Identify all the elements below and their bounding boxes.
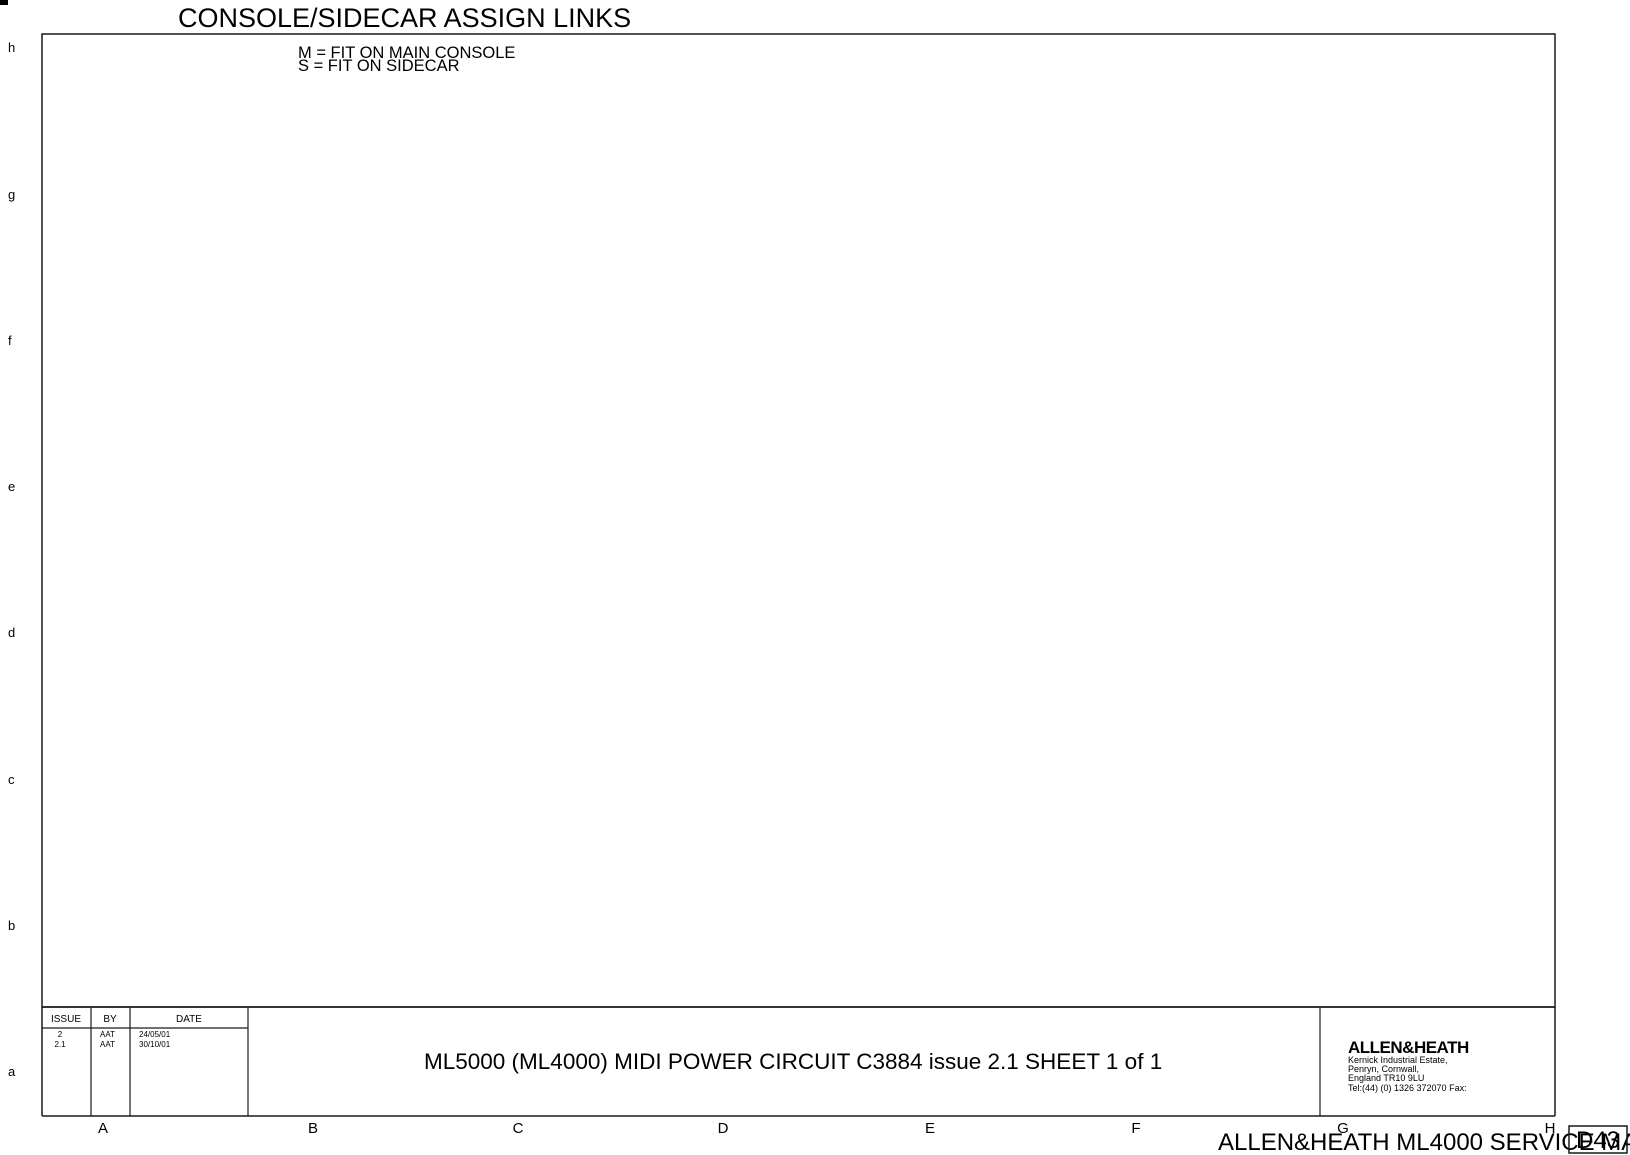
svg-text:ALLEN&HEATH ML4000 SERVICE MAN: ALLEN&HEATH ML4000 SERVICE MANUAL	[1218, 1129, 1630, 1155]
svg-text:CONSOLE/SIDECAR ASSIGN LINKS: CONSOLE/SIDECAR ASSIGN LINKS	[178, 3, 631, 33]
svg-text:f: f	[8, 333, 12, 348]
svg-text:c: c	[8, 772, 15, 787]
svg-text:ISSUE: ISSUE	[51, 1014, 81, 1025]
svg-text:B: B	[308, 1120, 318, 1137]
svg-text:2: 2	[58, 1030, 63, 1039]
svg-text:30/10/01: 30/10/01	[139, 1040, 171, 1049]
svg-text:2.1: 2.1	[54, 1040, 66, 1049]
svg-text:F: F	[1131, 1120, 1140, 1137]
svg-text:D43: D43	[1576, 1127, 1620, 1154]
svg-text:C: C	[513, 1120, 524, 1137]
svg-text:DATE: DATE	[176, 1014, 202, 1025]
svg-text:England TR10 9LU: England TR10 9LU	[1348, 1073, 1424, 1083]
svg-text:S = FIT ON SIDECAR: S = FIT ON SIDECAR	[298, 57, 460, 75]
svg-text:24/05/01: 24/05/01	[139, 1030, 171, 1039]
svg-text:d: d	[8, 625, 15, 640]
svg-text:AAT: AAT	[100, 1040, 115, 1049]
svg-text:e: e	[8, 479, 15, 494]
svg-text:E: E	[925, 1120, 935, 1137]
svg-text:b: b	[8, 918, 15, 933]
svg-text:BY: BY	[103, 1014, 117, 1025]
svg-text:ML5000 (ML4000) MIDI POWER CIR: ML5000 (ML4000) MIDI POWER CIRCUIT C3884…	[424, 1049, 1162, 1074]
svg-text:AAT: AAT	[100, 1030, 115, 1039]
svg-text:Tel:(44) (0) 1326 372070 Fax:: Tel:(44) (0) 1326 372070 Fax:	[1348, 1083, 1467, 1093]
svg-text:a: a	[8, 1064, 16, 1079]
svg-text:A: A	[98, 1120, 108, 1137]
svg-text:D: D	[718, 1120, 729, 1137]
svg-text:h: h	[8, 40, 15, 55]
svg-text:g: g	[8, 187, 15, 202]
